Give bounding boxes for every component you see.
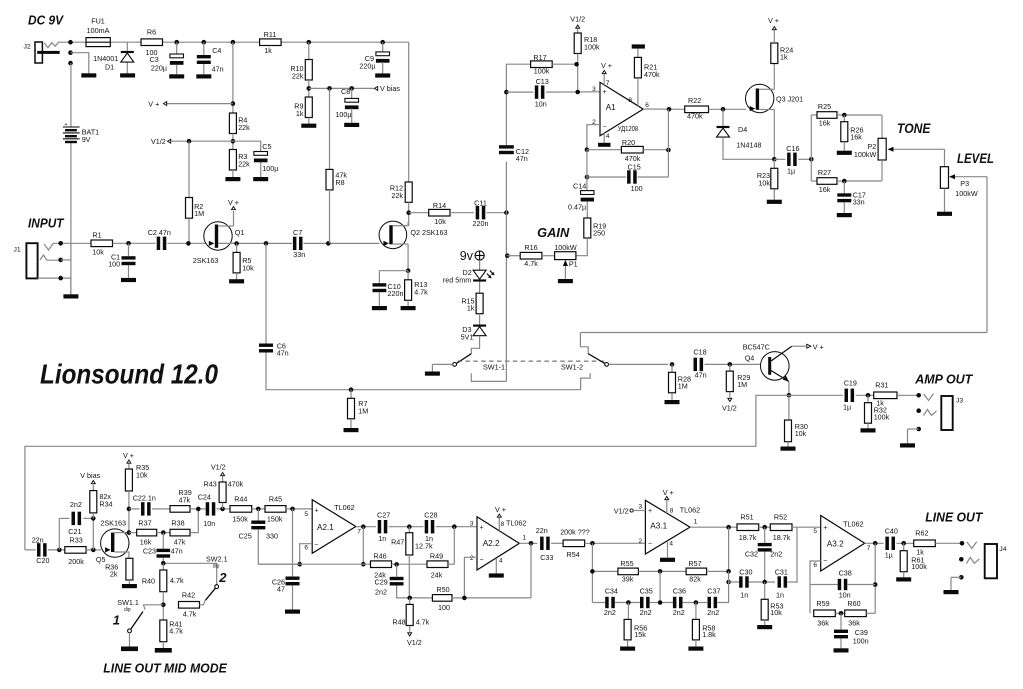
svg-text:R46: R46 [373, 552, 386, 561]
wire input [53, 241, 91, 246]
svg-text:V1/2: V1/2 [407, 638, 422, 647]
svg-text:SW1.1: SW1.1 [117, 598, 139, 607]
svg-text:C34: C34 [605, 587, 618, 596]
node R56 top [626, 600, 631, 605]
svg-text:2: 2 [638, 538, 642, 545]
diode D1 1N4001 [93, 42, 134, 73]
svg-text:1n: 1n [740, 591, 748, 600]
resistor R1 [91, 230, 113, 256]
capacitor C40 1u [885, 526, 914, 559]
svg-text:100: 100 [108, 260, 120, 269]
svg-text:4.7k: 4.7k [170, 576, 184, 585]
svg-text:V +: V + [768, 16, 779, 25]
svg-text:2n2: 2n2 [70, 500, 82, 509]
svg-text:R47: R47 [391, 537, 404, 546]
power 9v [460, 249, 484, 263]
connector J3 [908, 393, 964, 443]
svg-text:TONE: TONE [897, 121, 931, 136]
svg-text:Lionsound 12.0: Lionsound 12.0 [40, 358, 218, 389]
svg-text:A2.2: A2.2 [483, 539, 500, 548]
ground C26 [285, 610, 300, 614]
svg-text:J1: J1 [14, 247, 21, 254]
svg-text:FU1: FU1 [91, 17, 105, 26]
svg-text:16k: 16k [819, 119, 831, 128]
title INPUT [28, 216, 65, 230]
svg-text:+: + [648, 508, 652, 515]
power V bias R34 [80, 471, 100, 484]
svg-text:470k: 470k [228, 480, 244, 489]
svg-text:7: 7 [606, 80, 610, 87]
node R55-R57 [658, 569, 663, 602]
connector J1 [14, 243, 61, 278]
svg-text:39k: 39k [622, 574, 634, 583]
svg-text:C8: C8 [341, 87, 350, 96]
svg-text:100kW: 100kW [854, 150, 877, 159]
svg-text:4: 4 [499, 558, 503, 565]
svg-text:J3: J3 [956, 398, 963, 405]
node R53 top [762, 580, 767, 585]
svg-text:V1/2: V1/2 [151, 137, 166, 146]
node R61 top [901, 541, 906, 546]
capacitor C35 2n2 [640, 587, 673, 617]
svg-text:R48: R48 [392, 618, 405, 627]
svg-text:C15: C15 [628, 162, 641, 171]
svg-text:R51: R51 [740, 513, 753, 522]
svg-text:R34: R34 [99, 500, 112, 509]
svg-text:J4: J4 [999, 546, 1006, 553]
svg-text:TL062: TL062 [334, 503, 354, 512]
svg-text:10k: 10k [434, 217, 446, 226]
capacitor C25 330 [239, 509, 300, 564]
svg-text:22k: 22k [292, 72, 304, 81]
svg-text:3: 3 [470, 521, 474, 528]
svg-text:R17: R17 [533, 53, 546, 62]
power V1/2 R18 [570, 15, 585, 29]
svg-text:4.7k: 4.7k [524, 259, 538, 268]
capacitor C7 33n [293, 228, 305, 259]
svg-text:5: 5 [813, 528, 817, 535]
svg-text:6: 6 [304, 545, 308, 552]
resistor R61 100k [900, 543, 927, 577]
svg-text:8: 8 [501, 521, 505, 528]
ground R58 [688, 647, 703, 651]
capacitor C24 10n [198, 492, 230, 528]
svg-text:4: 4 [669, 540, 673, 547]
resistor R35 10k [125, 463, 149, 533]
ground R9 [301, 124, 316, 128]
svg-text:dip: dip [213, 563, 220, 569]
svg-text:100n: 100n [853, 636, 869, 645]
node Q5 drain [127, 530, 132, 535]
svg-text:C30: C30 [739, 568, 752, 577]
node R58 top [694, 600, 699, 605]
svg-text:R16: R16 [524, 243, 537, 252]
resistor R32 100k [865, 395, 890, 428]
resistor R50 100 [432, 585, 531, 612]
svg-text:1n: 1n [378, 534, 386, 543]
svg-text:2n2: 2n2 [375, 587, 387, 596]
ground R26 [837, 151, 852, 155]
svg-text:C7: C7 [293, 228, 302, 237]
svg-text:J2: J2 [24, 44, 31, 51]
svg-text:100k: 100k [874, 413, 890, 422]
svg-text:22k: 22k [391, 191, 403, 200]
svg-text:DC 9V: DC 9V [28, 13, 65, 27]
svg-text:3: 3 [592, 86, 596, 93]
svg-text:9V: 9V [82, 135, 91, 144]
resistor R49 24k [427, 552, 454, 580]
svg-text:6: 6 [813, 562, 817, 569]
svg-text:R8: R8 [335, 178, 344, 187]
node Q3 source [772, 157, 777, 162]
svg-text:470k: 470k [687, 111, 703, 120]
svg-text:47n: 47n [212, 64, 224, 73]
svg-text:1M: 1M [194, 209, 204, 218]
transistor Q4 BC547C [743, 342, 806, 395]
svg-text:1k: 1k [916, 548, 924, 557]
svg-text:1k: 1k [876, 399, 884, 408]
node C22 tap [127, 507, 132, 512]
power V+ Q1 [228, 198, 239, 210]
ground D1 [120, 73, 135, 77]
resistor R62 1k [914, 529, 962, 557]
node Q2 drain [406, 210, 411, 215]
svg-text:V +: V + [148, 100, 159, 109]
svg-text:−: − [603, 123, 607, 130]
svg-text:dip: dip [124, 607, 131, 613]
svg-text:4.7k: 4.7k [183, 610, 197, 619]
svg-text:R55: R55 [620, 559, 633, 568]
resistor R51 18.7k [737, 513, 770, 543]
wire R46 row [258, 563, 370, 565]
resistor R53 10k [761, 582, 783, 625]
svg-text:INPUT: INPUT [28, 216, 65, 230]
svg-text:A3.2: A3.2 [827, 540, 844, 549]
resistor R60 36k [845, 599, 876, 627]
resistor R39 47k [170, 488, 206, 512]
svg-text:2: 2 [470, 555, 474, 562]
capacitor C28 1n [424, 511, 477, 544]
svg-text:10k: 10k [770, 608, 782, 617]
capacitor C31 1n [775, 568, 797, 600]
svg-text:36k: 36k [848, 618, 860, 627]
wire C11 out [487, 210, 509, 215]
capacitor C3 220u [150, 42, 184, 74]
resistor R11 [260, 30, 282, 55]
capacitor C11 220n [473, 199, 489, 229]
svg-text:TL062: TL062 [843, 520, 863, 529]
resistor R27 16k [811, 168, 882, 194]
resistor R15 [461, 293, 483, 324]
svg-text:R1: R1 [92, 230, 101, 239]
svg-text:V1/2: V1/2 [570, 15, 585, 24]
svg-text:1µ: 1µ [843, 403, 851, 412]
potentiometer P1 100kW [554, 243, 577, 279]
resistor R43 470k [204, 476, 244, 509]
svg-text:Q4: Q4 [745, 354, 755, 363]
svg-text:R14: R14 [433, 201, 446, 210]
svg-text:+: + [315, 508, 319, 515]
svg-text:Q3 J201: Q3 J201 [776, 95, 803, 104]
svg-text:5V1: 5V1 [461, 333, 474, 342]
ground J4 [944, 590, 959, 594]
capacitor C27 1n [377, 511, 424, 544]
capacitor C34 2n2 [604, 587, 640, 617]
svg-text:18.7k: 18.7k [773, 533, 791, 542]
title GAIN [537, 226, 570, 240]
wire SW1-1 throw [471, 373, 506, 381]
svg-text:10k: 10k [92, 247, 104, 256]
wire R1-C2 [113, 241, 156, 246]
svg-text:C4: C4 [212, 46, 221, 55]
ground R7 [344, 428, 359, 432]
capacitor C33 22n [536, 526, 563, 562]
op-amp A2.2 TL062 [470, 517, 527, 570]
svg-text:C29: C29 [375, 577, 388, 586]
potentiometer P2 100kW [854, 115, 945, 181]
node J2 pins [68, 40, 73, 66]
wire A1 out [643, 107, 685, 112]
svg-text:−: − [648, 541, 652, 548]
wire gain column [504, 64, 530, 381]
wire J1 ring [58, 258, 71, 263]
svg-text:R33: R33 [70, 536, 83, 545]
ground R28 [665, 400, 680, 404]
svg-text:0.47µ: 0.47µ [568, 202, 586, 211]
ground R36 [122, 584, 137, 588]
resistor R58 1.8k [692, 603, 716, 647]
svg-text:2SK163: 2SK163 [100, 519, 126, 528]
capacitor C22 1n [129, 494, 170, 516]
svg-text:A3.1: A3.1 [650, 521, 667, 530]
svg-text:16k: 16k [850, 133, 862, 142]
capacitor C19 1u [789, 378, 874, 411]
node C31 col [796, 527, 798, 583]
svg-text:R52: R52 [774, 513, 787, 522]
transistor Q1 2SK163 [193, 211, 244, 265]
resistor R6 [141, 28, 163, 58]
node R43 bottom [220, 507, 225, 512]
svg-text:2n2: 2n2 [707, 608, 719, 617]
svg-text:200k ???: 200k ??? [560, 528, 590, 537]
node A3.1 -in [590, 541, 595, 603]
svg-text:1.8k: 1.8k [702, 630, 716, 639]
ground R13 [401, 306, 416, 310]
wire V bias [309, 84, 401, 93]
title LEVEL [957, 151, 994, 166]
svg-text:P3: P3 [960, 179, 969, 188]
capacitor C12 47n [499, 145, 529, 163]
connector J4 [951, 541, 1007, 590]
svg-text:V +: V + [495, 505, 506, 514]
resistor R45 150k [265, 495, 312, 524]
ground SW1.1 [121, 647, 138, 652]
power V+ R24 [768, 16, 779, 30]
resistor R2 1M [186, 141, 205, 243]
svg-text:C25: C25 [239, 532, 252, 541]
svg-text:1n: 1n [776, 591, 784, 600]
svg-text:47n: 47n [516, 154, 528, 163]
svg-text:R50: R50 [436, 585, 449, 594]
svg-text:R43: R43 [204, 480, 217, 489]
svg-text:C33: C33 [540, 553, 553, 562]
ground C8 [344, 123, 359, 127]
ground A1 pin4 [598, 133, 611, 147]
svg-text:+: + [480, 525, 484, 532]
resistor R30 10k [785, 395, 808, 446]
svg-text:−: − [480, 557, 484, 564]
svg-text:R54: R54 [567, 550, 580, 559]
node C20-R33 [57, 518, 62, 552]
wire feedback loop [25, 395, 789, 550]
svg-text:9v: 9v [460, 249, 474, 263]
svg-text:47k: 47k [174, 538, 186, 547]
svg-text:150k: 150k [232, 515, 248, 524]
node Q5 gate [91, 516, 96, 552]
resistor R5 [233, 244, 254, 280]
svg-text:R31: R31 [875, 381, 888, 390]
svg-text:C19: C19 [844, 378, 857, 387]
node C4 [202, 40, 207, 45]
ground C1 [121, 278, 136, 282]
svg-text:V +: V + [813, 343, 824, 352]
svg-text:47n: 47n [277, 348, 289, 357]
svg-text:R57: R57 [688, 559, 701, 568]
svg-text:C32: C32 [745, 550, 758, 559]
node C8 [349, 86, 354, 91]
svg-text:7: 7 [357, 529, 361, 536]
ground C3 [169, 74, 184, 78]
capacitor C2 47n [148, 228, 171, 250]
svg-text:C27: C27 [377, 511, 390, 520]
node gain [505, 253, 510, 258]
capacitor C38 10n [810, 569, 875, 600]
svg-text:4.7k: 4.7k [169, 627, 183, 636]
svg-text:D1: D1 [105, 62, 114, 71]
node C24 in [196, 507, 201, 512]
svg-text:V bias: V bias [380, 84, 400, 93]
ground C39 [834, 648, 849, 652]
resistor R34 82x [90, 485, 113, 519]
svg-text:Q5: Q5 [96, 555, 106, 564]
svg-text:R44: R44 [234, 495, 247, 504]
svg-text:R37: R37 [138, 519, 151, 528]
svg-text:2n2: 2n2 [604, 608, 616, 617]
svg-text:V +: V + [601, 61, 612, 70]
svg-text:V1/2: V1/2 [614, 506, 629, 515]
svg-text:D4: D4 [738, 125, 747, 134]
wire A3.2 out [865, 541, 884, 613]
svg-text:1k: 1k [467, 304, 475, 313]
svg-text:−: − [314, 542, 318, 549]
switch SW1-1 [432, 354, 505, 372]
wire top rail [63, 41, 409, 43]
capacitor C23 47n [143, 530, 183, 563]
svg-text:1µ: 1µ [885, 551, 893, 560]
power V+ A1 [601, 61, 612, 85]
title AMP OUT [914, 371, 973, 386]
svg-text:Q1: Q1 [235, 228, 245, 237]
svg-text:A2.1: A2.1 [317, 523, 334, 532]
svg-text:22n: 22n [32, 536, 44, 545]
connector J2 [24, 42, 64, 63]
capacitor C36 2n2 [673, 587, 707, 617]
svg-text:4.7k: 4.7k [416, 618, 430, 627]
node C35-C36 [658, 600, 663, 605]
power V1/2 R48 [407, 633, 422, 647]
ground P3 [937, 212, 952, 216]
wire level return [580, 177, 987, 333]
switch SW1.1 [113, 598, 164, 647]
node R26 top [842, 113, 847, 118]
svg-text:1M: 1M [678, 382, 688, 391]
resistor R18 [574, 29, 600, 93]
svg-text:1µ: 1µ [787, 167, 795, 176]
svg-text:100: 100 [631, 184, 643, 193]
wire J2 sleeve to ground [71, 53, 89, 74]
wire A1 pin2 [587, 125, 600, 150]
svg-text:BC547C: BC547C [743, 342, 770, 351]
svg-text:2n2: 2n2 [640, 608, 652, 617]
resistor R54 200k [560, 528, 645, 559]
wire Q1 out [232, 241, 292, 246]
ground P1 [558, 279, 573, 283]
svg-text:C28: C28 [424, 511, 437, 520]
resistor R33 200k [65, 536, 101, 567]
resistor R26 16k [841, 115, 864, 151]
wire A2.1 pin6 [297, 544, 312, 567]
power V1/2 A3.1 [614, 506, 646, 515]
diode D4 1N4148 [717, 109, 775, 159]
capacitor C10 220n [373, 271, 409, 306]
resistor R38 47k [170, 509, 198, 547]
svg-text:4: 4 [606, 133, 610, 140]
ground R3 [225, 177, 240, 181]
svg-text:18.7k: 18.7k [739, 533, 757, 542]
node V bias [307, 86, 312, 91]
resistor R52 18.7k [770, 513, 820, 543]
svg-text:SW1-2: SW1-2 [561, 363, 583, 372]
ground R23 [767, 200, 782, 204]
svg-text:LEVEL: LEVEL [957, 151, 994, 166]
ground J2 [81, 73, 96, 77]
resistor R44 150k [230, 495, 265, 524]
node fb [726, 569, 731, 584]
wire A2.1 out [356, 524, 376, 566]
capacitor C30 1n [739, 568, 775, 600]
resistor R42 4.7k [179, 590, 206, 618]
svg-text:2: 2 [218, 570, 227, 585]
svg-text:100mA: 100mA [87, 26, 110, 35]
capacitor C5 100u [233, 141, 279, 177]
svg-text:12.7k: 12.7k [415, 542, 433, 551]
resistor R17 [531, 53, 578, 76]
capacitor C9 220u [359, 40, 389, 74]
transistor Q3 J201 [746, 64, 804, 160]
capacitor C13 10n [506, 77, 600, 108]
power V1/2 R29 [722, 398, 737, 412]
svg-text:2n2: 2n2 [673, 608, 685, 617]
svg-text:2n2: 2n2 [770, 550, 782, 559]
resistor R13 [405, 271, 429, 306]
resistor R7 1M [348, 387, 369, 428]
svg-text:4.7k: 4.7k [414, 288, 428, 297]
power V1/2 R43 [211, 462, 226, 475]
svg-text:100kW: 100kW [554, 243, 577, 252]
svg-text:−: − [823, 558, 827, 565]
resistor R47 12.7k [391, 527, 433, 598]
capacitor C39 100n [834, 613, 869, 648]
